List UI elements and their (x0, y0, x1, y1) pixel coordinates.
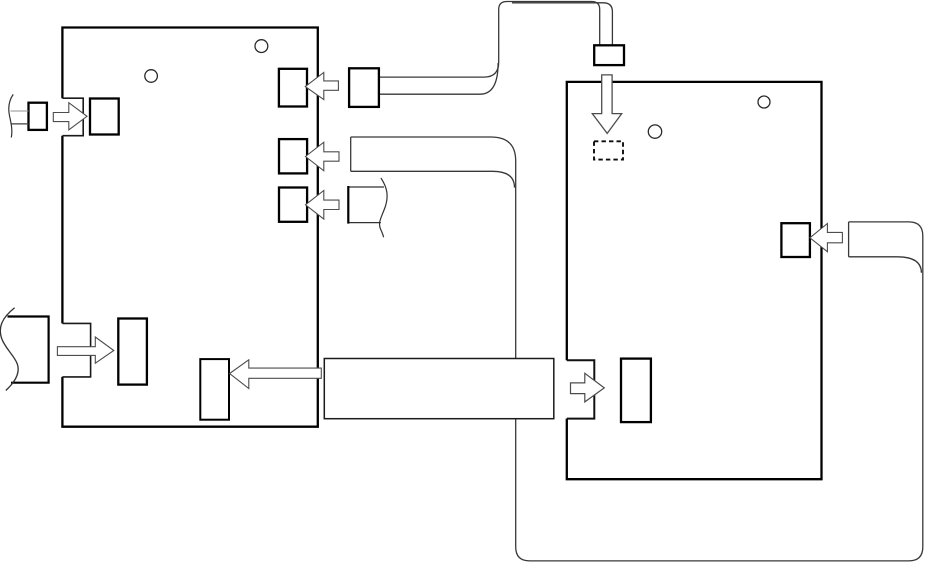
mounting hole circle on right board 2 (758, 96, 770, 108)
arrow left from long bracket into tall box (230, 360, 322, 389)
arrow left into connector C (306, 191, 340, 220)
torn cable block beside connector C (348, 178, 387, 237)
torn wave bottom-left (0, 308, 18, 391)
mounting hole circle on left board 2 (255, 40, 268, 53)
connector box C on left board right edge (279, 188, 307, 222)
left board outline (62, 28, 317, 427)
wire stubs from torn cable to plug top-left (11, 111, 29, 124)
connector box on right board right edge (781, 223, 810, 257)
connector box A on left board right edge (279, 69, 307, 107)
notch bottom-left on left board (62, 323, 90, 377)
notch top-left on left board (62, 98, 83, 136)
arrow left into connector A (305, 73, 338, 100)
wire cable2 inner edge (351, 171, 515, 187)
dashed target box on right board (594, 141, 623, 159)
arrow left into connector B (306, 142, 340, 171)
mounting hole circle on right board (648, 125, 661, 138)
torn cable block bottom-left (8, 317, 49, 383)
wire cable3 end cap (848, 222, 850, 257)
tall connector box bottom-middle of left board (200, 359, 229, 420)
connector box B on left board right edge (279, 139, 307, 173)
wire cable2 big loop from middle connector around bottom to right-side connector (351, 137, 923, 561)
arrow right into tall connector bottom-left (57, 337, 113, 363)
notch on right board left edge (567, 360, 595, 418)
mounting hole circle on left board (145, 70, 158, 83)
arrow right into top-left connector (53, 103, 87, 130)
connector box inside left board top-left (90, 99, 119, 135)
right board outline (567, 82, 822, 479)
small plug box outside left board top-left (29, 103, 47, 130)
tall connector box bottom-left inside board (118, 319, 147, 385)
torn wave top-left (9, 94, 13, 137)
connector box D (cable1 plug) (349, 68, 379, 107)
wire cable2 end cap (350, 137, 352, 171)
long bracket rectangle bottom-middle (324, 359, 554, 419)
arrow down from cable1 plug into dashed box (592, 75, 621, 133)
arrow right into right board notch connector (571, 373, 605, 402)
torn wave right of block C (380, 178, 388, 237)
wire cable3 inner edge (849, 257, 922, 273)
wire cable1 top loop from connector D to board2 top connector (379, 2, 613, 95)
connector box on right board at notch (621, 359, 651, 423)
arrow left into right-edge connector of right board (810, 224, 843, 252)
connector box board2 top (cable1 end) (594, 45, 624, 65)
